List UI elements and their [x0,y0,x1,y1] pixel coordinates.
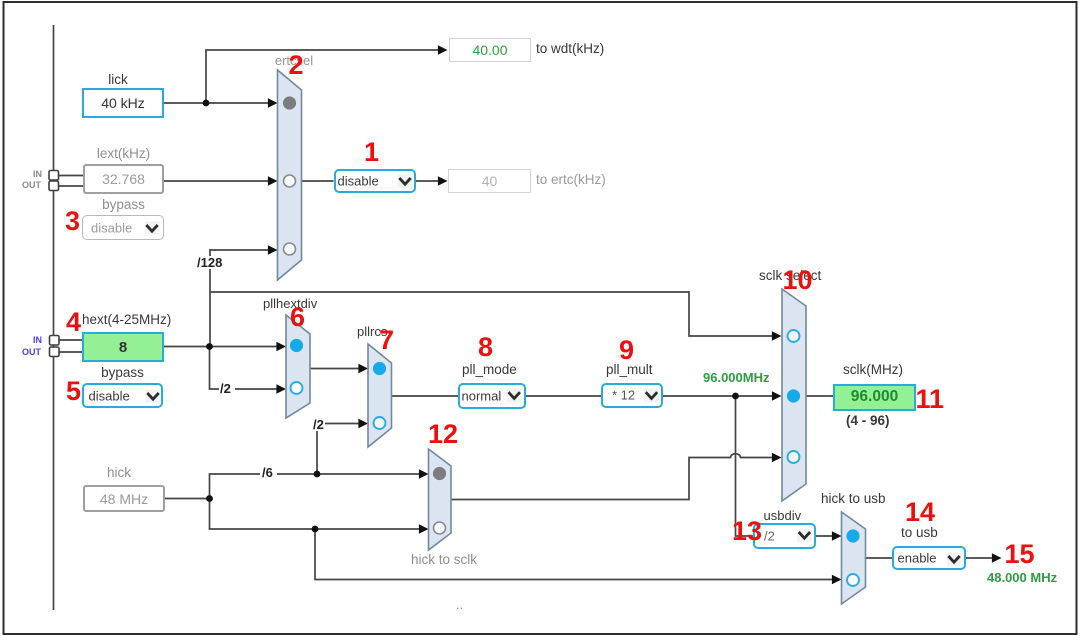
annotation 3 [65,208,80,235]
wire ertcsel out to dropdown1 [302,180,334,182]
chevron pll_mult [646,392,657,398]
wire lick branch up to wdt [206,50,439,103]
output box sclk 96.000 [833,384,916,411]
annotation 2 [289,52,304,79]
arrow into pllrcs input2 [358,419,368,429]
chevron bg pll_mode [507,389,522,402]
wire hick /6 branch [210,474,261,499]
source box hext 8 [82,332,164,362]
wire hext /2 branch [210,347,220,390]
chevron dropdown3 [146,225,157,231]
junction dot hick lower [312,526,319,533]
wire enable out [966,557,992,559]
arrow into pllhextdiv input1 [276,342,286,352]
chevron dropdown1 [399,178,410,184]
wire pll branch down to usbdiv [736,396,754,536]
mux sclk select [782,289,806,501]
wire /128 branch to ertcsel input3 [210,250,270,347]
wire /6 to hick-to-sclk input1 [277,473,420,475]
label hick [78,466,160,480]
pad square hext OUT [50,347,60,357]
arrow into hick-to-usb input2 [832,575,842,585]
label /6 [261,466,274,479]
wire /2 to pllrcs input2 [317,424,360,475]
label pllhextdiv [263,297,317,310]
chevron bg usbdiv [797,529,812,542]
hick-to-sclk input2 dot [434,522,446,534]
label usbdiv [764,509,802,522]
annotation 13 [732,518,762,545]
label sclk(MHz) [843,363,903,377]
source box lick 40 kHz [82,88,164,118]
pllhextdiv input2 dot [291,382,303,394]
wire hext OUT pad [59,351,82,353]
wire usbdiv to hick-to-usb mux [816,535,834,537]
label pll_mult [606,363,653,377]
wire sclk select out [806,395,833,397]
wire hick to muxes [165,498,210,500]
output box to wdt [449,38,531,62]
label IN hext [12,336,42,345]
label to wdt(kHz) [536,42,604,56]
arrow usb output [992,553,1002,563]
chevron bg dropdown5 [146,390,161,403]
arrow into wdt box [438,45,448,55]
dropdown pll_mode normal [458,383,526,409]
sclk select input1 dot [788,330,800,342]
junction dot hick [206,495,213,502]
label dots [456,598,463,611]
annotation 14 [905,499,935,526]
label pllrcs [357,325,387,338]
wire hick to hick-to-usb input2 [315,529,834,580]
ertcsel input3 dot [284,243,296,255]
sclk select input3 dot [788,451,800,463]
arrow into ertcsel input2 [268,176,278,186]
arrow into pllhextdiv input2 [276,384,286,394]
source box hick 48 MHz [83,485,165,512]
pad square lext IN [49,171,59,181]
wire pllhextdiv out to pllrcs [310,368,360,370]
annotation 10 [783,267,813,294]
sclk select input2 selected dot [787,389,800,402]
mux hick-to-usb [842,512,866,604]
wire hext IN pad [59,339,82,341]
arrow into pllrcs input1 [358,364,368,374]
wire hick direct branch [210,499,421,530]
wire hext to pllhextdiv [164,346,278,348]
label OUT lext [11,181,41,190]
arrow into ertc box [438,176,448,186]
annotation 4 [66,309,81,336]
ertcsel input1 selected dot [283,96,296,109]
dropdown to usb enable [892,546,966,570]
label hick to usb [821,492,886,506]
annotation 5 [66,378,81,405]
mux pllrcs [368,344,392,447]
pllhextdiv input1 selected dot [290,339,303,352]
label lext(kHz) [83,147,164,161]
chevron usbdiv [799,532,810,538]
label pll_mode [462,363,517,377]
mux hick-to-sclk [429,449,452,550]
wire hick-to-sclk out to sclk select input3 with hop [451,454,773,500]
junction dot pll out [732,393,739,400]
label OUT hext [11,348,41,357]
wire pll out to sclk select input2 [663,395,774,397]
wire pllrcs out to pll_mode [392,395,459,397]
label bypass hext [82,366,163,380]
chevron bg dropdown1 [398,175,413,188]
annotation 9 [619,337,634,364]
chevron bg to usb [947,553,962,566]
chevron pll_mode [509,392,520,398]
pad square lext OUT [49,181,59,191]
dropdown ertcsel disable [334,169,417,194]
chevron bg pll_mult [644,389,659,402]
arrow into sclk select input1 [772,331,782,341]
label 96.000MHz [703,371,769,384]
wire lick to ertcsel [164,102,270,104]
dropdown bypass lext [82,215,164,240]
chevron dropdown5 [147,393,158,399]
label to usb [901,526,938,540]
annotation 11 [916,386,945,413]
chevron to usb [948,556,959,562]
wire lext OUT pad [58,185,83,187]
annotation 1 [364,139,379,166]
label ertcsel [262,54,326,67]
arrow into sclk select input2 [772,391,782,401]
label bypass lext [83,198,164,212]
output box to ertc [448,169,531,193]
junction dot lick [203,100,210,107]
label sclk select [759,269,821,283]
wire lext to ertcsel [164,180,270,182]
junction dot hick /6 and /2 [314,471,321,478]
dropdown bypass hext [82,383,163,408]
dropdown usbdiv /2 [753,523,816,550]
junction dot hext [206,343,213,350]
wire hsrc branch to sclk select input1 [210,292,774,336]
hick-to-usb input1 selected dot [846,529,859,542]
label to ertc(kHz) [536,173,606,187]
label IN lext [12,170,42,179]
dropdown pll_mult *12 [601,383,663,409]
left bus line [53,25,55,610]
annotation 12 [428,421,458,448]
mux pllhextdiv [286,315,310,418]
label /2 upper [219,382,232,395]
pllrcs input1 selected dot [373,362,386,375]
arrow into hick-to-sclk input2 [419,524,429,534]
label (4 - 96) [846,414,890,428]
label lick [77,73,159,87]
label hext(4-25MHz) [82,313,171,327]
pllrcs input2 dot [374,417,386,429]
chevron bg dropdown3 [145,222,160,235]
hick-to-usb input2 dot [847,574,859,586]
annotation 6 [290,304,305,331]
label hick to sclk [411,553,477,567]
wire hick-to-usb out to enable [866,557,893,559]
label 48.000 MHz [987,571,1057,584]
arrow into ertcsel input1 [268,98,278,108]
wire pll_mode to pll_mult [526,395,601,397]
annotation 15 [1005,541,1035,568]
label /2 lower [312,418,325,431]
label /128 [196,256,223,269]
wire lext IN pad [58,175,83,177]
arrow into ertcsel input3 [268,245,278,255]
hick-to-sclk input1 selected dot [433,467,446,480]
pad square hext IN [50,336,60,346]
arrow into sclk select input3 [772,453,782,463]
arrow into hick-to-usb input1 [832,531,842,541]
arrow into hick-to-sclk input1 [419,469,429,479]
wire /2 to pllhextdiv input2 [235,388,278,390]
source box lext 32.768 [83,164,164,194]
mux ertcsel [278,70,302,280]
ertcsel input2 dot [284,175,296,187]
wire dropdown1 to ertc box [416,180,440,182]
annotation 7 [379,327,394,354]
annotation 8 [478,334,493,361]
